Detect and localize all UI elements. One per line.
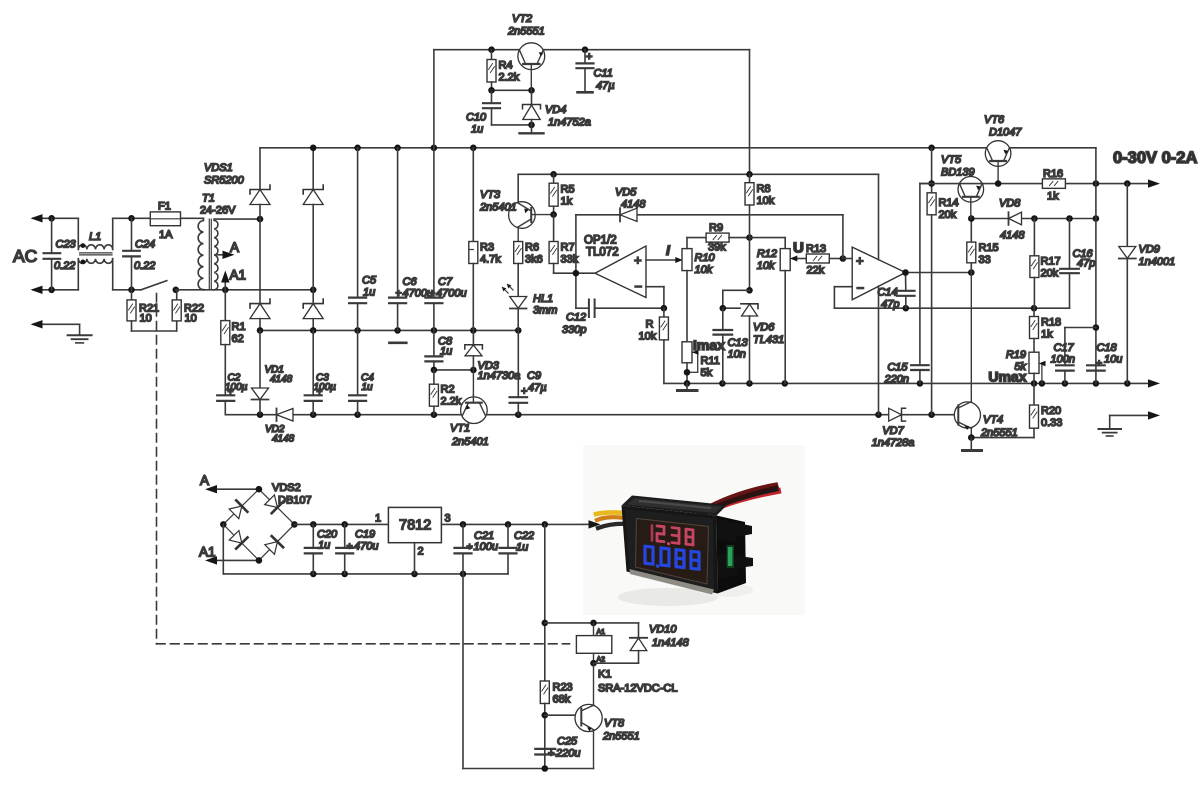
transistor VT4 2n5551	[954, 273, 1017, 440]
svg-text:A: A	[200, 473, 209, 488]
svg-text:1u: 1u	[516, 542, 528, 554]
svg-text:VD5: VD5	[615, 187, 637, 199]
diode VD10 1n4148	[594, 623, 690, 663]
potentiometer R11 5k (Imax)	[682, 337, 725, 383]
svg-text:TL072: TL072	[586, 247, 619, 259]
potentiometer R19 5k (Umax)	[988, 349, 1045, 385]
output common terminal with ground	[1099, 411, 1161, 436]
ground below VD4	[520, 125, 544, 133]
svg-text:C14: C14	[877, 287, 897, 299]
diode VD2 4148 (inline)	[265, 409, 295, 445]
svg-text:2: 2	[418, 546, 424, 558]
svg-text:10u: 10u	[1104, 354, 1122, 366]
svg-text:330p: 330p	[562, 324, 586, 336]
svg-text:R20: R20	[1041, 405, 1061, 417]
capacitor C10 1u	[466, 90, 535, 135]
svg-text:10: 10	[185, 313, 197, 325]
svg-text:+: +	[1096, 358, 1102, 370]
svg-text:VD7: VD7	[882, 425, 904, 437]
svg-text:VT4: VT4	[983, 414, 1003, 426]
svg-text:1n4148: 1n4148	[652, 637, 690, 649]
zener VD3 1n4730a	[465, 330, 521, 382]
svg-text:A: A	[230, 240, 239, 255]
svg-text:+: +	[548, 748, 554, 760]
earth ground terminal left	[31, 320, 92, 343]
resistor R3 4.7k	[469, 148, 501, 331]
wire: VT2 base node	[488, 87, 535, 94]
svg-text:0-30V 0-2A: 0-30V 0-2A	[1113, 149, 1197, 167]
svg-text:C15: C15	[887, 362, 908, 374]
svg-text:220n: 220n	[884, 374, 909, 386]
wire: op2 inverting feedback loop	[834, 287, 1069, 312]
svg-text:DB107: DB107	[278, 495, 312, 507]
svg-text:+: +	[228, 387, 234, 398]
svg-text:R16: R16	[1043, 168, 1063, 180]
capacitor C14 47p	[877, 273, 914, 311]
svg-text:VT8: VT8	[604, 718, 625, 730]
svg-text:1u: 1u	[363, 287, 375, 299]
svg-text:F1: F1	[158, 201, 171, 213]
photo: dual LED panel meter module	[583, 445, 805, 615]
svg-text:−: −	[857, 281, 865, 296]
svg-text:U: U	[793, 240, 804, 257]
svg-text:C24: C24	[135, 239, 155, 251]
svg-text:+: +	[467, 541, 473, 553]
svg-text:1k: 1k	[561, 196, 573, 208]
resistor R5 1k	[549, 174, 574, 218]
node A1 tap arrow	[221, 268, 246, 290]
capacitor C17 100n	[1051, 328, 1096, 384]
svg-text:R1: R1	[232, 321, 246, 333]
ground symbol below Imax pot	[678, 383, 698, 390]
svg-text:+: +	[521, 386, 527, 398]
fuse F1 1A	[150, 201, 180, 242]
svg-text:C10: C10	[466, 112, 487, 124]
ground below VT4	[963, 438, 982, 451]
wire: T1 bottom / secondary return	[203, 287, 316, 294]
diode VDS1c	[250, 219, 270, 330]
wire: auxiliary negative rail	[225, 411, 954, 418]
transistor VT3 2n5401	[479, 189, 554, 242]
relay K1 SRA-12VDC-CL coil	[576, 623, 677, 695]
svg-text:47µ: 47µ	[596, 80, 615, 92]
diode VDS1d	[303, 290, 323, 331]
node A tap arrow	[218, 240, 240, 259]
capacitor C12 330p	[562, 300, 664, 337]
resistor R 10k	[639, 308, 669, 383]
wire: +12V arrow to meter (over photo)	[583, 520, 601, 528]
svg-text:1A: 1A	[159, 229, 173, 241]
snubber resistor R21 10	[127, 290, 177, 331]
rectifier VDS2 DB107	[220, 482, 312, 564]
svg-text:1k: 1k	[1047, 191, 1059, 203]
svg-text:47p: 47p	[881, 299, 899, 311]
transistor VT2 2n5551	[507, 13, 545, 90]
svg-text:62: 62	[232, 333, 244, 345]
svg-text:1u: 1u	[471, 124, 483, 136]
diode VD8 4148	[999, 198, 1025, 242]
svg-text:C25: C25	[557, 736, 578, 748]
wire: relay emitter return rail	[463, 574, 594, 772]
svg-text:R10: R10	[695, 252, 716, 264]
capacitor C11 47u	[577, 50, 615, 93]
svg-text:SRA-12VDC-CL: SRA-12VDC-CL	[598, 683, 677, 695]
wire: T1 secondary top to rectifier	[214, 216, 263, 223]
transformer T1 24-26V	[198, 193, 236, 290]
svg-text:SR5200: SR5200	[204, 175, 245, 187]
svg-text:2n5551: 2n5551	[602, 731, 640, 743]
svg-text:20k: 20k	[1041, 268, 1059, 280]
svg-text:R4: R4	[499, 60, 513, 72]
svg-text:R: R	[646, 319, 654, 331]
resistor R4 2.2k	[487, 50, 520, 91]
wire: main positive raw bus	[260, 50, 1096, 152]
svg-text:R7: R7	[561, 242, 575, 254]
capacitor C22 1u	[500, 524, 535, 574]
svg-text:3: 3	[445, 513, 451, 525]
resistor R13 22k	[790, 240, 846, 277]
transistor VT1 2n5401	[450, 370, 489, 448]
svg-text:1: 1	[375, 513, 381, 525]
svg-text:2n5401: 2n5401	[479, 202, 517, 214]
svg-text:L1: L1	[89, 231, 101, 243]
svg-text:VD6: VD6	[753, 322, 775, 334]
wire: op2 output to VT5 base / R15	[902, 269, 974, 276]
svg-text:2n5551: 2n5551	[507, 26, 545, 38]
svg-text:4148: 4148	[621, 199, 646, 211]
ground bus (0V)	[664, 379, 1160, 387]
svg-text:7812: 7812	[399, 518, 431, 534]
svg-text:VD8: VD8	[999, 198, 1021, 210]
svg-text:2.2k: 2.2k	[499, 72, 520, 84]
svg-text:10n: 10n	[728, 349, 746, 361]
resistor R14 20k	[920, 148, 959, 415]
wire: +12V rail to meter	[441, 520, 600, 528]
wire: op1 + input to R10 wiper	[646, 242, 683, 263]
svg-text:1u: 1u	[318, 540, 330, 552]
resistor R20 0.33	[968, 383, 1062, 441]
svg-text:R18: R18	[1041, 317, 1061, 329]
zener VD1 4148	[252, 330, 293, 414]
resistor R7 33k	[549, 215, 579, 274]
svg-text:1n4752a: 1n4752a	[548, 117, 591, 129]
wire: op2 power pins	[878, 174, 880, 414]
regulator 7812	[388, 507, 450, 574]
svg-text:C22: C22	[514, 530, 534, 542]
svg-text:C6: C6	[403, 276, 418, 288]
capacitor C19 470u	[336, 524, 378, 574]
resistor R2 2.2k	[429, 370, 461, 415]
svg-text:R6: R6	[525, 242, 539, 254]
diode VD9 1n4001	[1119, 184, 1175, 384]
svg-text:Imax: Imax	[693, 337, 725, 353]
resistor R23 68k	[540, 681, 572, 769]
wire: VT1 base node	[431, 367, 477, 374]
capacitor C3 100u	[305, 330, 336, 414]
svg-text:0.22: 0.22	[54, 260, 75, 272]
capacitor C5 1u	[349, 148, 377, 331]
svg-text:R9: R9	[709, 222, 723, 234]
svg-text:+: +	[347, 541, 353, 553]
svg-text:A1: A1	[597, 629, 606, 636]
resistor R8 10k	[745, 174, 775, 293]
svg-text:3k6: 3k6	[525, 254, 543, 266]
svg-text:C13: C13	[728, 337, 749, 349]
wire: op1 output node	[573, 215, 595, 308]
LED HL1 3mm	[502, 284, 557, 330]
capacitor C23	[44, 218, 77, 289]
svg-text:10: 10	[140, 313, 152, 325]
capacitor C7 4700u	[425, 148, 466, 331]
svg-text:100u: 100u	[474, 541, 498, 553]
svg-text:VT5: VT5	[941, 154, 962, 166]
resistor R1 62	[221, 290, 246, 396]
svg-text:R12: R12	[757, 248, 777, 260]
svg-text:VDS2: VDS2	[272, 482, 301, 494]
svg-text:4.7k: 4.7k	[480, 254, 501, 266]
op-amp OP1/2 TL072 (I channel, mirrored)	[584, 235, 646, 298]
capacitor C8 1u	[425, 330, 453, 370]
svg-text:+: +	[586, 51, 592, 63]
resistor R17 20k	[1030, 219, 1061, 309]
wire: meter supply minus rail	[223, 524, 508, 577]
svg-text:10k: 10k	[695, 264, 713, 276]
capacitor C18 10u	[1087, 342, 1122, 371]
svg-text:R5: R5	[561, 184, 575, 196]
svg-text:0.33: 0.33	[1041, 417, 1062, 429]
transistor VT6 D1047	[984, 114, 1022, 184]
svg-text:R17: R17	[1041, 256, 1061, 268]
wire: relay supply node	[545, 620, 639, 627]
wire: reference rail (R5-R8)	[518, 171, 878, 203]
wire: VT6 emitter to output	[1012, 148, 1099, 384]
capacitor C16 47p	[1060, 219, 1095, 309]
capacitor C25 220u	[535, 736, 580, 760]
svg-text:HL1: HL1	[533, 293, 553, 305]
capacitor C9 47u	[510, 330, 547, 414]
svg-text:24-26V: 24-26V	[200, 205, 236, 217]
svg-text:1n4730a: 1n4730a	[478, 370, 521, 382]
transistor VT8 2n5551	[545, 663, 640, 768]
inductor L1 (common-mode choke)	[78, 231, 112, 264]
svg-text:VT6: VT6	[984, 114, 1005, 126]
svg-text:C7: C7	[438, 276, 453, 288]
wire: bridge output + to 7812	[294, 513, 388, 528]
svg-text:A1: A1	[199, 545, 216, 560]
svg-text:47p: 47p	[1077, 258, 1095, 270]
zener VD4 1n4752a	[523, 90, 591, 128]
svg-text:+: +	[429, 288, 435, 300]
svg-text:R3: R3	[480, 242, 494, 254]
zener VD7 1n4728a (inline)	[872, 408, 915, 449]
svg-text:470u: 470u	[354, 541, 378, 553]
svg-text:C19: C19	[355, 529, 375, 541]
svg-text:R8: R8	[757, 183, 771, 195]
svg-text:33: 33	[979, 254, 991, 266]
svg-text:C11: C11	[594, 68, 613, 80]
svg-text:AC: AC	[13, 246, 37, 266]
svg-text:10k: 10k	[757, 195, 775, 207]
capacitor C13 10n	[714, 308, 749, 383]
svg-text:2n5401: 2n5401	[451, 436, 489, 448]
svg-text:R19: R19	[1006, 349, 1026, 361]
svg-text:+: +	[317, 387, 323, 398]
svg-text:Umax: Umax	[988, 369, 1026, 385]
svg-text:C9: C9	[527, 370, 541, 382]
potentiometer R10 10k	[682, 238, 716, 342]
svg-text:1n4728a: 1n4728a	[872, 437, 915, 449]
svg-text:K1: K1	[598, 669, 611, 681]
resistor R6 3k6	[514, 242, 543, 297]
svg-text:A1: A1	[230, 268, 247, 283]
svg-text:D1047: D1047	[989, 127, 1022, 139]
svg-text:C17: C17	[1054, 342, 1075, 354]
svg-text:VT2: VT2	[512, 13, 532, 25]
svg-text:C23: C23	[56, 239, 77, 251]
svg-text:4700u: 4700u	[436, 288, 467, 300]
svg-text:R11: R11	[701, 355, 720, 367]
svg-text:1k: 1k	[1041, 329, 1053, 341]
resistor R15 33	[967, 219, 999, 273]
svg-text:+: +	[634, 253, 642, 268]
capacitor C21 100u	[455, 524, 498, 574]
wire: reference divider to R12	[750, 238, 786, 249]
capacitor C24	[123, 218, 155, 289]
svg-text:VD9: VD9	[1139, 244, 1160, 256]
svg-text:VD4: VD4	[545, 104, 566, 116]
node A (meter supply winding)	[200, 473, 259, 493]
wire: op1 inverting input	[646, 287, 667, 312]
svg-text:3mm: 3mm	[533, 305, 557, 317]
svg-text:VT1: VT1	[450, 423, 470, 435]
svg-text:1n4001: 1n4001	[1139, 256, 1176, 268]
svg-text:−: −	[635, 279, 643, 294]
capacitor C6 4700u	[389, 148, 433, 343]
svg-text:47µ: 47µ	[528, 382, 547, 394]
snubber resistor R22 10	[172, 290, 204, 325]
svg-text:39k: 39k	[708, 242, 726, 254]
svg-text:4148: 4148	[272, 434, 295, 445]
wire: raw negative mid bus	[257, 327, 522, 334]
capacitor C2 100u	[217, 373, 247, 415]
switch (power, relay contact)	[141, 281, 203, 294]
svg-text:+: +	[396, 288, 402, 300]
resistor R18 1k	[1030, 308, 1062, 352]
shunt reference VD6 TL431	[720, 290, 785, 383]
svg-text:R2: R2	[441, 384, 455, 396]
transistor VT5 BD139	[941, 154, 984, 219]
svg-text:OP1/2: OP1/2	[584, 235, 617, 247]
svg-text:T1: T1	[202, 193, 215, 205]
svg-text:100n: 100n	[1051, 354, 1075, 366]
svg-text:68k: 68k	[553, 694, 571, 706]
wire: VD5 rail down to op2 + input	[843, 215, 852, 259]
diode VDS1b	[303, 148, 323, 290]
svg-text:R23: R23	[553, 682, 573, 694]
capacitor C4 1u	[349, 330, 374, 414]
svg-text:10k: 10k	[639, 331, 657, 343]
svg-text:4148: 4148	[1000, 230, 1025, 242]
svg-text:I: I	[666, 242, 671, 258]
wire: output drive rail (VT5/VT6/R16)	[920, 179, 1160, 187]
wire: VT2 collector rail (top)	[434, 46, 750, 174]
svg-text:1u: 1u	[362, 382, 374, 393]
diode VDS1a	[250, 148, 270, 219]
svg-text:R15: R15	[979, 242, 999, 254]
potentiometer R12 10k (U set)	[757, 248, 790, 383]
svg-text:+: +	[856, 253, 864, 268]
svg-text:VDS1: VDS1	[204, 162, 233, 174]
svg-text:C12: C12	[566, 312, 586, 324]
svg-text:C5: C5	[362, 275, 377, 287]
capacitor C20 1u	[305, 524, 338, 574]
svg-text:4148: 4148	[270, 374, 293, 385]
wire: 12V feed down to relay	[542, 524, 549, 681]
capacitor C15 220n	[884, 184, 929, 386]
wire: VD8 clamp rail	[968, 215, 1099, 222]
resistor R9 39k	[687, 222, 753, 254]
svg-text:5k: 5k	[701, 367, 713, 379]
dashed mechanical link from relay to switch	[157, 294, 570, 644]
diode VD5 4148	[576, 187, 843, 222]
svg-text:2.2k: 2.2k	[441, 396, 462, 408]
svg-text:TL431: TL431	[753, 334, 784, 346]
svg-text:R13: R13	[806, 243, 826, 255]
svg-text:VT3: VT3	[480, 189, 501, 201]
node A1	[199, 545, 259, 565]
op-amp OP2/2 TL072 (U channel)	[852, 247, 905, 300]
svg-text:10k: 10k	[757, 260, 775, 272]
wire: AC line bottom (N input)	[31, 259, 142, 294]
svg-text:VD10: VD10	[649, 624, 677, 636]
svg-text:R14: R14	[939, 197, 959, 209]
svg-text:1u: 1u	[440, 346, 452, 358]
svg-text:220u: 220u	[555, 748, 580, 760]
resistor R16 1k	[1042, 168, 1065, 203]
wire: AC line top (L input)	[31, 214, 204, 249]
svg-text:0.22: 0.22	[134, 260, 155, 272]
svg-text:C18: C18	[1097, 342, 1118, 354]
svg-text:22k: 22k	[807, 265, 825, 277]
svg-text:BD139: BD139	[941, 167, 975, 179]
svg-text:20k: 20k	[939, 209, 957, 221]
